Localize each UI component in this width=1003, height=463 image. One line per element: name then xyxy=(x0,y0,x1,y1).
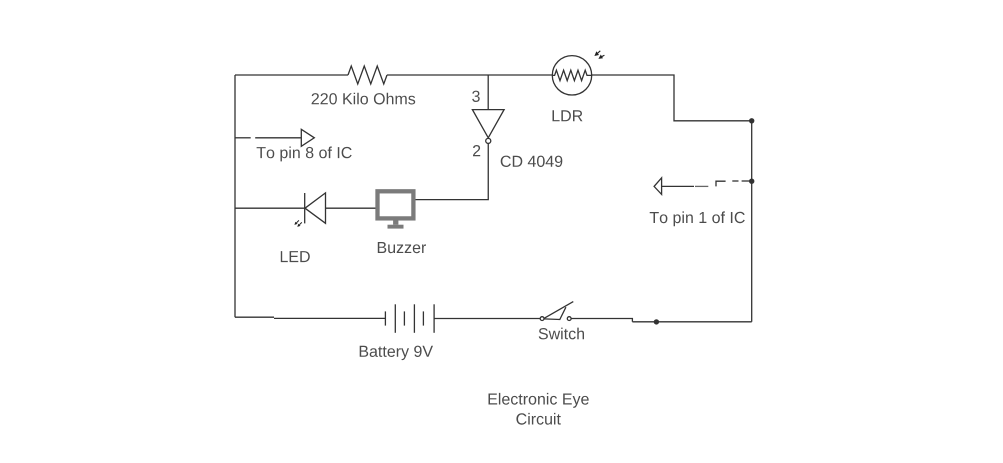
buzzer stand base xyxy=(388,225,404,229)
wire inverter output to buzzer xyxy=(416,144,489,200)
label Buzzer xyxy=(378,242,426,253)
switch S1 left terminal xyxy=(540,317,544,321)
label To pin 8 of IC xyxy=(257,147,352,162)
wire left rail to LED xyxy=(235,207,305,209)
to pin 8 arrow dash xyxy=(235,137,250,139)
title Electronic Eye line 1 xyxy=(489,393,589,408)
LED light arrow 2 xyxy=(297,222,302,227)
to pin 1 dashed segment b xyxy=(732,180,738,182)
to pin 1 arrow shaft xyxy=(662,185,694,187)
switch blade base line xyxy=(544,307,566,319)
to pin 1 dashed segment a xyxy=(695,185,708,187)
battery short plate 3 xyxy=(422,311,424,325)
junction dot top right xyxy=(749,118,754,123)
op-amp inverter U1 CD4049 triangle xyxy=(472,110,504,138)
wire top left horizontal xyxy=(235,74,348,76)
wire LED anode to buzzer xyxy=(326,207,376,209)
wire left vertical xyxy=(234,75,236,317)
battery B1 short plate 1 xyxy=(384,311,386,325)
wire resistor to LDR xyxy=(387,74,552,76)
pin label 2 xyxy=(473,145,480,156)
label To pin 1 of IC xyxy=(650,211,745,226)
switch blade long line xyxy=(544,302,573,319)
to pin 1 step jog xyxy=(716,181,726,186)
LDR light arrow 1 xyxy=(594,51,600,56)
wire LDR to right corner xyxy=(592,75,752,121)
title Circuit line 2 xyxy=(516,413,561,425)
LDR body circle xyxy=(552,56,591,95)
wire right vertical xyxy=(751,121,753,322)
junction dot bottom xyxy=(654,319,659,324)
label CD 4049 xyxy=(501,156,563,167)
label LDR xyxy=(553,110,583,121)
label 220 Kilo Ohms xyxy=(312,93,416,105)
battery tall plate 3 xyxy=(433,304,435,333)
buzzer stand stem xyxy=(393,220,398,224)
pin label 3 xyxy=(472,91,480,102)
label LED xyxy=(281,251,310,262)
label Battery 9V xyxy=(360,346,433,361)
wire switch to step xyxy=(571,319,632,322)
label Switch xyxy=(539,328,584,340)
LED cathode bar xyxy=(304,193,306,223)
switch right terminal xyxy=(567,317,571,321)
to pin 8 arrowhead xyxy=(301,129,314,146)
wire step to right corner xyxy=(632,321,751,323)
wire top node to inverter input xyxy=(487,75,489,110)
battery tall plate 1 xyxy=(394,304,396,333)
LDR light arrow 2 xyxy=(598,55,604,59)
to pin 1 wire to node xyxy=(742,180,752,182)
LED triangle xyxy=(305,193,326,223)
to pin 1 arrowhead xyxy=(654,178,662,195)
wire bottom left segment xyxy=(235,316,274,318)
battery tall plate 2 xyxy=(413,304,415,333)
inverter output bubble xyxy=(486,138,491,143)
junction dot right middle xyxy=(749,179,754,184)
buzzer BZ1 body xyxy=(378,191,414,218)
resistor R1 220 Kilo Ohms xyxy=(348,66,387,84)
battery short plate 2 xyxy=(403,311,405,325)
wire jog to battery xyxy=(274,317,385,319)
to pin 8 arrow shaft xyxy=(255,137,301,139)
wire battery to switch xyxy=(434,318,540,320)
LED light arrow 1 xyxy=(294,220,299,225)
LDR internal resistor zigzag xyxy=(552,70,591,80)
